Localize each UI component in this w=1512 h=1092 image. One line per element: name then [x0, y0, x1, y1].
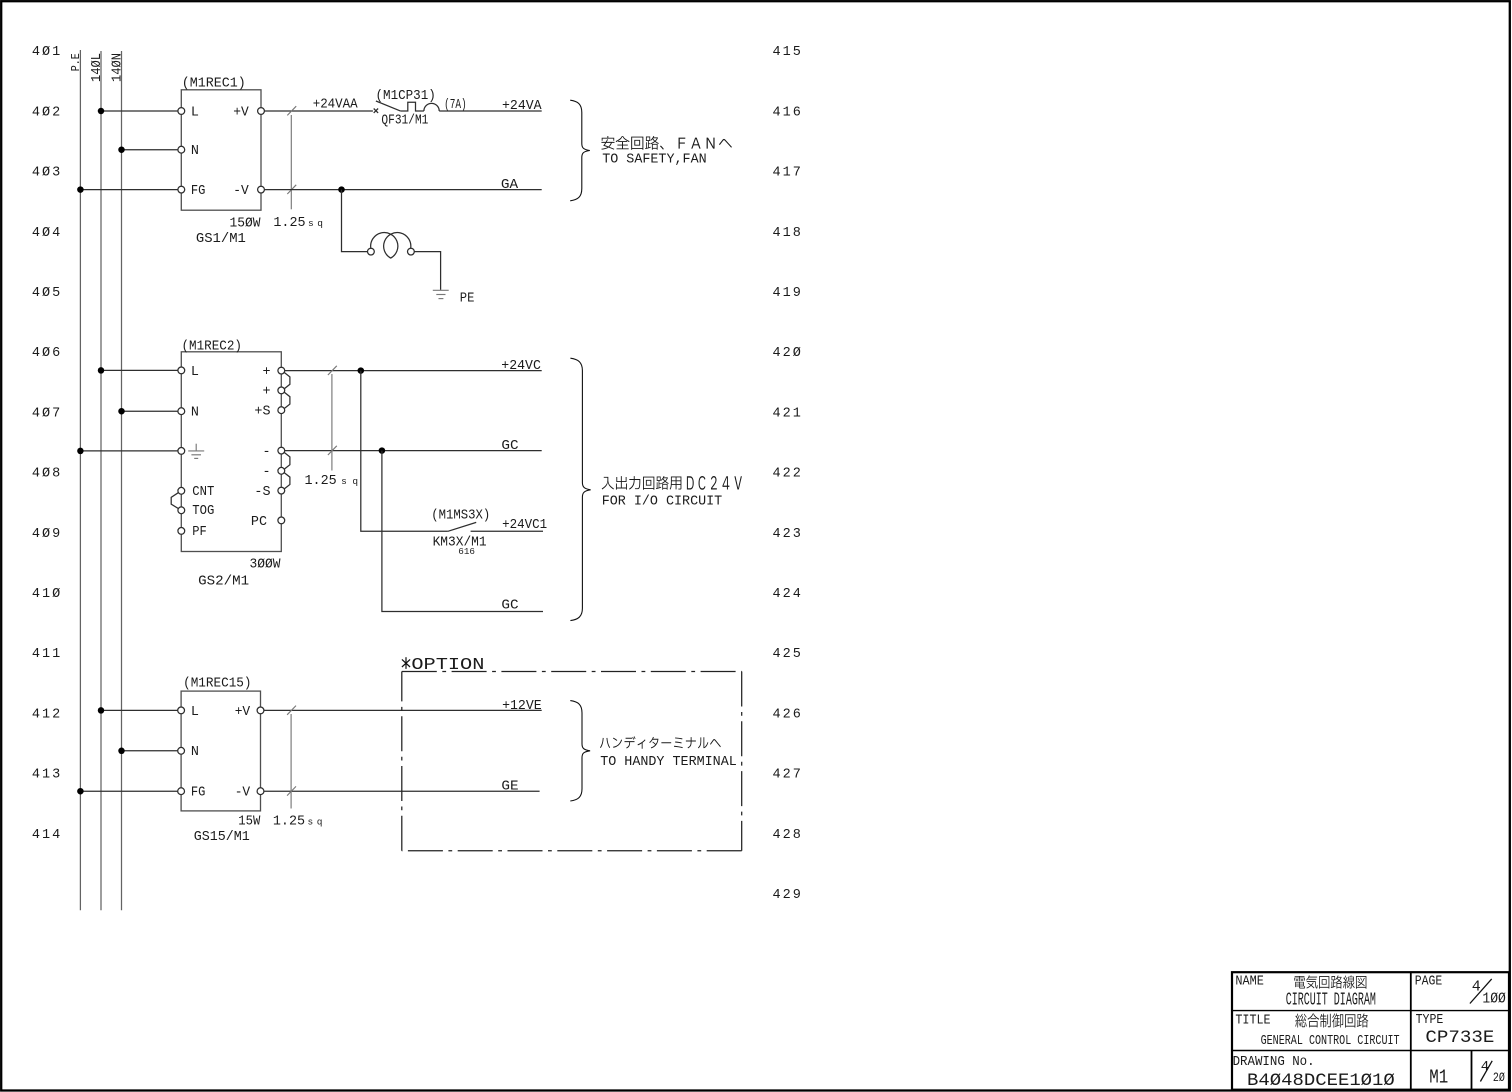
- svg-text:3ØØW: 3ØØW: [250, 557, 282, 572]
- svg-text:423: 423: [773, 527, 803, 542]
- svg-text:B4Ø48DCEE1Ø1Ø: B4Ø48DCEE1Ø1Ø: [1247, 1071, 1395, 1091]
- svg-text:417: 417: [773, 166, 803, 181]
- svg-text:4Ø8: 4Ø8: [32, 467, 62, 482]
- svg-text:-: -: [262, 445, 270, 460]
- svg-text:+: +: [262, 385, 270, 400]
- power supply unit U2 (M1REC2) GS2/M1 box: [181, 340, 281, 590]
- U3 terminal N: [178, 747, 185, 754]
- svg-text:(M1REC15): (M1REC15): [183, 676, 251, 691]
- svg-text:+24VC1: +24VC1: [502, 518, 547, 533]
- U1 terminal -V: [258, 186, 265, 193]
- wire +V to breaker QF31: [264, 98, 373, 113]
- svg-text:15W: 15W: [238, 814, 261, 829]
- power supply unit U1 (M1REC1) GS1/M1 box: [181, 76, 261, 247]
- svg-text:422: 422: [773, 467, 803, 482]
- svg-text:GS15/M1: GS15/M1: [194, 830, 250, 845]
- title block frame: [1232, 972, 1509, 1089]
- svg-text:41Ø: 41Ø: [32, 587, 62, 602]
- U2 terminal +2: [278, 387, 285, 394]
- svg-text:N: N: [191, 406, 199, 421]
- U3 terminal FG: [178, 788, 185, 795]
- ferrite clamp core L1 on PE lead: [368, 233, 415, 259]
- title block sheet fraction 4/20: [1480, 1059, 1505, 1085]
- wire -V to GA: [264, 178, 541, 193]
- svg-text:4Ø7: 4Ø7: [32, 406, 62, 421]
- note: for I/O circuit DC24V: [602, 476, 742, 510]
- svg-text:4Ø6: 4Ø6: [32, 346, 62, 361]
- left line-number column 401-414: [32, 45, 62, 843]
- svg-text:4Ø9: 4Ø9: [32, 527, 62, 542]
- wire U2 - to GC: [285, 439, 542, 454]
- svg-text:PAGE: PAGE: [1415, 975, 1443, 990]
- wire ferrite to PE ground: [414, 252, 440, 290]
- svg-text:-: -: [262, 465, 270, 480]
- svg-text:414: 414: [32, 828, 62, 843]
- svg-text:-V: -V: [235, 786, 251, 801]
- svg-text:15ØW: 15ØW: [230, 217, 262, 232]
- title block DRAWING No. cell: [1233, 1055, 1396, 1091]
- cable marker 1.25sq pair (section 3): [287, 706, 296, 809]
- U1 terminal +V: [258, 108, 265, 115]
- svg-text:M1: M1: [1429, 1066, 1448, 1088]
- wire +24VC junction down to contact KM3X: [361, 371, 448, 532]
- wire 140N to U3 pin N: [118, 748, 177, 755]
- svg-text:4Ø4: 4Ø4: [32, 226, 62, 241]
- wire -V to GE: [264, 780, 540, 795]
- right line-number column 415-429: [773, 45, 803, 903]
- option marker asterisk: [402, 657, 410, 669]
- svg-text:-V: -V: [233, 184, 249, 199]
- svg-text:411: 411: [32, 647, 62, 662]
- circuit breaker QF31/M1 (M1CP31) 7A: [374, 89, 467, 128]
- svg-text:QF31/M1: QF31/M1: [381, 113, 428, 128]
- power supply unit U3 (M1REC15) GS15/M1 box: [181, 676, 261, 845]
- svg-text:PF: PF: [192, 525, 207, 540]
- wire P.E to U1 pin FG: [77, 186, 178, 193]
- junction node on GC wire: [379, 447, 386, 454]
- svg-text:416: 416: [773, 105, 803, 120]
- svg-text:TO HANDY TERMINAL: TO HANDY TERMINAL: [600, 755, 737, 770]
- title block TITLE cell: [1235, 1013, 1399, 1049]
- title block PAGE cell: [1415, 975, 1506, 1008]
- wire P.E to U3 pin FG: [77, 788, 178, 795]
- U3 terminal L: [178, 707, 185, 714]
- wire 140L to U3 pin L: [98, 707, 178, 714]
- svg-text:4Ø2: 4Ø2: [32, 105, 62, 120]
- wire breaker to +24VA: [439, 99, 542, 114]
- svg-text:425: 425: [773, 647, 803, 662]
- svg-text:FOR I/O CIRCUIT: FOR I/O CIRCUIT: [602, 495, 723, 510]
- U2 ground terminal: [178, 448, 185, 455]
- svg-text:GE: GE: [501, 780, 518, 795]
- jumper loop right 3: [284, 453, 290, 470]
- svg-text:2Ø: 2Ø: [1493, 1070, 1505, 1085]
- U2 terminal -: [278, 447, 285, 454]
- svg-text:428: 428: [773, 828, 803, 843]
- svg-text:GC: GC: [501, 439, 518, 454]
- svg-text:424: 424: [773, 587, 803, 602]
- jumper loop right 1: [284, 373, 290, 389]
- U3 terminal +V: [257, 707, 264, 714]
- U3 terminal -V: [257, 788, 264, 795]
- svg-text:PC: PC: [251, 515, 267, 530]
- U2 terminal +S: [278, 407, 285, 414]
- net 140N vertical bus: [110, 51, 125, 910]
- svg-text:(M1MS3X): (M1MS3X): [431, 509, 490, 524]
- U2 terminal L: [178, 367, 185, 374]
- svg-text:4Ø3: 4Ø3: [32, 166, 62, 181]
- svg-text:4Ø1: 4Ø1: [32, 45, 62, 60]
- svg-text:-S: -S: [254, 485, 270, 500]
- svg-text:(M1CP31): (M1CP31): [376, 89, 436, 104]
- U2 terminal -2: [278, 467, 285, 474]
- svg-text:429: 429: [773, 888, 803, 903]
- wire 140L to U1 pin L: [98, 108, 178, 115]
- svg-text:N: N: [191, 144, 199, 159]
- svg-text:+24VAA: +24VAA: [313, 98, 359, 113]
- chassis ground symbol at U2: [188, 444, 204, 459]
- jumper loop right 2: [284, 392, 290, 408]
- note: to safety circuit / fan: [601, 136, 731, 168]
- svg-text:+V: +V: [235, 705, 251, 720]
- svg-text:P.E: P.E: [69, 53, 83, 71]
- U2 terminal TOG: [178, 507, 185, 514]
- wire 140N to U1 pin N: [118, 146, 178, 153]
- wire 140L to U2 pin L: [98, 367, 178, 374]
- wire junction down to ferrite clamp: [342, 190, 368, 252]
- title block NAME cell: [1235, 975, 1375, 1011]
- jumper loop right 4: [284, 473, 290, 489]
- svg-text:(M1REC2): (M1REC2): [182, 340, 243, 355]
- wire U2 + to +24VC: [285, 359, 542, 374]
- svg-text:TO SAFETY,FAN: TO SAFETY,FAN: [602, 153, 706, 168]
- U2 terminal +: [278, 367, 285, 374]
- svg-text:+12VE: +12VE: [502, 699, 542, 714]
- wire +V to +12VE: [264, 699, 542, 714]
- svg-text:GS2/M1: GS2/M1: [198, 575, 249, 590]
- svg-text:L: L: [191, 105, 199, 120]
- svg-text:L: L: [191, 705, 199, 720]
- svg-text:PE: PE: [460, 292, 475, 307]
- net P.E vertical bus: [69, 50, 83, 910]
- svg-text:42Ø: 42Ø: [773, 346, 803, 361]
- svg-text:CNT: CNT: [192, 485, 214, 500]
- net 140L vertical bus: [90, 51, 105, 910]
- svg-text:FG: FG: [191, 184, 206, 199]
- svg-text:TYPE: TYPE: [1416, 1013, 1444, 1028]
- brace for I/O circuit: [570, 358, 590, 620]
- U2 terminal PF: [178, 528, 185, 535]
- U2 terminal CNT: [178, 487, 185, 494]
- svg-text:CP733E: CP733E: [1425, 1028, 1494, 1048]
- svg-text:14ØN: 14ØN: [110, 53, 125, 82]
- note: to handy terminal: [600, 736, 737, 770]
- cable marker 1.25sq pair (section 2): [328, 366, 337, 471]
- svg-text:GA: GA: [501, 178, 519, 193]
- svg-text:TITLE: TITLE: [1235, 1014, 1270, 1029]
- title block TYPE cell: [1416, 1013, 1495, 1048]
- junction node on +24VC wire: [358, 367, 365, 374]
- svg-text:CIRCUIT DIAGRAM: CIRCUIT DIAGRAM: [1286, 990, 1376, 1010]
- svg-text:419: 419: [773, 286, 803, 301]
- svg-text:NAME: NAME: [1235, 975, 1264, 990]
- U1 terminal FG: [178, 186, 185, 193]
- svg-text:616: 616: [458, 546, 475, 557]
- svg-text:418: 418: [773, 226, 803, 241]
- svg-text:L: L: [191, 365, 199, 380]
- svg-text:FG: FG: [191, 786, 206, 801]
- svg-text:426: 426: [773, 707, 803, 722]
- svg-text:OPTION: OPTION: [411, 656, 484, 675]
- U2 terminal N: [178, 408, 185, 415]
- svg-text:415: 415: [773, 45, 803, 60]
- svg-text:412: 412: [32, 707, 62, 722]
- jumper loop CNT-TOG: [171, 493, 178, 509]
- svg-text:N: N: [191, 745, 199, 760]
- svg-text:1ØØ: 1ØØ: [1482, 990, 1506, 1007]
- svg-text:(M1REC1): (M1REC1): [182, 76, 246, 91]
- U2 terminal -S: [278, 487, 285, 494]
- svg-text:+S: +S: [254, 405, 270, 420]
- svg-text:GC: GC: [501, 599, 518, 614]
- ground PE: [433, 290, 449, 298]
- contact KM3X/M1 (M1MS3X) 616: [431, 509, 543, 558]
- option boundary dash-dot box: [402, 672, 742, 851]
- wire GC junction down to lower GC: [382, 451, 543, 612]
- junction node on GA wire: [338, 186, 345, 193]
- svg-text:14ØL: 14ØL: [90, 53, 105, 82]
- wire P.E to U2 ground pin: [77, 448, 178, 455]
- svg-text:+24VC: +24VC: [501, 359, 541, 374]
- brace to handy terminal: [570, 701, 590, 801]
- U1 terminal L: [178, 108, 185, 115]
- svg-text:+24VA: +24VA: [502, 99, 543, 114]
- svg-text:DRAWING No.: DRAWING No.: [1233, 1055, 1315, 1070]
- svg-text:GS1/M1: GS1/M1: [196, 232, 246, 247]
- svg-text:+V: +V: [233, 105, 249, 120]
- U2 terminal PC: [278, 517, 285, 524]
- cable marker 1.25sq pair (section 1): [287, 106, 296, 209]
- wire 140N to U2 pin N: [118, 408, 178, 415]
- brace to safety/fan: [570, 100, 590, 201]
- svg-text:4Ø5: 4Ø5: [32, 286, 62, 301]
- U1 terminal N: [178, 146, 185, 153]
- svg-text:421: 421: [773, 406, 803, 421]
- svg-text:TOG: TOG: [192, 504, 214, 519]
- svg-text:+: +: [262, 365, 270, 380]
- svg-text:413: 413: [32, 768, 62, 783]
- svg-text:GENERAL CONTROL CIRCUIT: GENERAL CONTROL CIRCUIT: [1261, 1033, 1400, 1049]
- svg-text:427: 427: [773, 768, 803, 783]
